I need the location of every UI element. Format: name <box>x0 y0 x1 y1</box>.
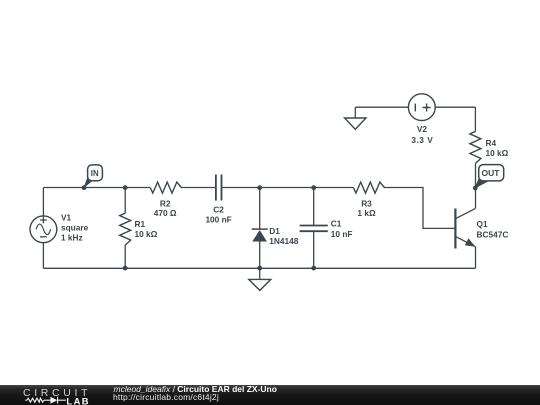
svg-text:10 kΩ: 10 kΩ <box>486 148 509 158</box>
svg-text:Q1: Q1 <box>477 219 488 229</box>
svg-text:10 nF: 10 nF <box>331 229 353 239</box>
svg-text:C1: C1 <box>331 219 342 229</box>
svg-text:R2: R2 <box>160 198 171 208</box>
svg-text:D1: D1 <box>269 226 280 236</box>
svg-text:1 kΩ: 1 kΩ <box>357 208 376 218</box>
svg-text:R4: R4 <box>486 138 497 148</box>
svg-text:square: square <box>61 222 89 232</box>
svg-text:http://circuitlab.com/c6t4j2j: http://circuitlab.com/c6t4j2j <box>113 391 219 401</box>
svg-text:V2: V2 <box>417 124 428 134</box>
svg-text:1 kHz: 1 kHz <box>61 232 83 242</box>
svg-text:10 kΩ: 10 kΩ <box>135 229 158 239</box>
svg-text:R1: R1 <box>135 219 146 229</box>
svg-text:100 nF: 100 nF <box>205 215 231 225</box>
svg-text:3.3 V: 3.3 V <box>411 135 433 145</box>
svg-text:1N4148: 1N4148 <box>269 236 298 246</box>
svg-text:C2: C2 <box>213 205 224 215</box>
svg-text:470 Ω: 470 Ω <box>154 208 177 218</box>
svg-text:LAB: LAB <box>66 395 90 405</box>
svg-text:OUT: OUT <box>482 168 501 178</box>
svg-text:IN: IN <box>91 169 99 178</box>
svg-text:V1: V1 <box>61 213 72 223</box>
svg-text:R3: R3 <box>361 198 372 208</box>
svg-text:BC547C: BC547C <box>477 229 509 239</box>
